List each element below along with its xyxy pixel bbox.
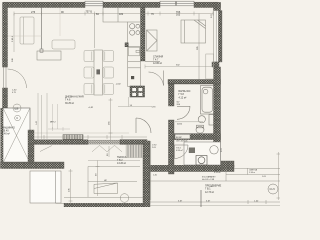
line above radiator xyxy=(34,132,129,134)
right wall outside texts xyxy=(211,13,223,152)
svg-text:С1-5: С1-5 xyxy=(270,188,276,191)
stair texts xyxy=(152,107,158,177)
corridor north wall xyxy=(150,165,234,171)
bedroom label xyxy=(153,56,163,65)
living cabinet xyxy=(37,51,61,60)
bathtub xyxy=(201,86,215,115)
left lower dim ticks row xyxy=(34,135,147,139)
faint layout lines xyxy=(8,8,61,37)
living label xyxy=(65,96,84,105)
svg-text:МЕТ.2: МЕТ.2 xyxy=(50,122,57,124)
terrace bench trapezoid xyxy=(94,183,118,194)
window W2 bedroom top (double) xyxy=(160,1,194,6)
svg-text:СВ 1.60/Ш.Б: СВ 1.60/Ш.Б xyxy=(176,141,188,143)
boiler circle xyxy=(198,116,205,123)
terrace dim vertical left xyxy=(69,169,73,203)
living table low xyxy=(52,40,75,49)
bath left wall upper xyxy=(169,84,175,106)
terrace south parapet xyxy=(64,203,147,207)
wall left lower segment xyxy=(3,88,8,108)
svg-text:757 Б: 757 Б xyxy=(86,10,93,13)
dim below chimney xyxy=(118,97,152,107)
svg-text:276: 276 xyxy=(31,11,36,14)
bath left wall lower xyxy=(169,120,175,174)
svg-text:12.73 м²: 12.73 м² xyxy=(205,191,214,194)
right wall outer hatch strip xyxy=(219,11,223,63)
svg-text:50/20: 50/20 xyxy=(177,124,183,126)
grid marker circle A xyxy=(13,104,21,112)
left balcony-door thin band xyxy=(3,67,8,90)
living sofa xyxy=(20,17,34,44)
svg-text:1.34 м: 1.34 м xyxy=(249,172,255,174)
dining table xyxy=(94,50,103,95)
svg-text:20Б: 20Б xyxy=(177,104,181,106)
slat screen strip xyxy=(126,145,143,158)
svg-text:240: 240 xyxy=(12,58,14,62)
svg-text:С: С xyxy=(16,116,18,120)
interior wall kitchen/bedroom xyxy=(141,8,146,62)
dining centerpiece xyxy=(96,69,100,74)
corridor outline lines xyxy=(150,168,280,181)
kitchen dark knob xyxy=(131,76,134,79)
bath threshold line xyxy=(175,121,203,123)
terrace window band xyxy=(88,140,147,144)
washroom door arc xyxy=(175,145,189,159)
living bottom wall solid part xyxy=(34,140,88,145)
svg-text:ВХ.ВР: ВХ.ВР xyxy=(176,137,182,139)
terrace label xyxy=(117,156,127,165)
svg-text:163: 163 xyxy=(176,13,181,16)
washroom texts xyxy=(176,141,188,153)
lobby column circle xyxy=(268,184,278,194)
svg-text:182: 182 xyxy=(119,13,124,16)
machine room outline xyxy=(3,108,30,163)
partition line xyxy=(41,8,43,50)
bedroom wardrobe xyxy=(147,30,158,51)
bedroom dim vertical xyxy=(198,14,200,80)
window W1 kitchen top xyxy=(85,1,103,6)
svg-text:Ш8: Ш8 xyxy=(15,106,19,110)
door swing triangles terrace xyxy=(92,145,122,151)
svg-text:0.98 м²: 0.98 м² xyxy=(176,149,183,152)
terrace table circle xyxy=(120,194,129,203)
svg-text:СВЕТЛА: СВЕТЛА xyxy=(249,168,258,171)
stove circles xyxy=(130,24,140,36)
machine room label xyxy=(2,127,15,136)
bedroom door arc xyxy=(145,61,160,63)
wall left upper (hatched) xyxy=(3,3,8,68)
WC pan xyxy=(196,125,204,133)
terrace dim 90 vertical xyxy=(96,161,100,197)
corridor texts row xyxy=(202,168,267,181)
svg-text:4.12 м²: 4.12 м² xyxy=(179,96,187,99)
corridor west wall xyxy=(143,141,150,207)
bedroom desk xyxy=(206,54,214,79)
bath top wall xyxy=(168,80,221,85)
kitchen sink box xyxy=(129,47,141,56)
svg-text:12.86 м²: 12.86 м² xyxy=(153,62,162,65)
svg-text:+0,82: +0,82 xyxy=(88,107,94,109)
right outer wall lower xyxy=(214,67,221,162)
washing room outline xyxy=(184,142,221,165)
svg-text:МОКРО: МОКРО xyxy=(214,169,222,171)
machine room diagonals xyxy=(3,108,30,163)
bedroom bed xyxy=(181,20,206,43)
svg-text:2.40.1: 2.40.1 xyxy=(12,35,14,42)
grid marker circle B xyxy=(15,115,21,121)
corner washer box xyxy=(209,115,215,126)
washer circle xyxy=(210,146,218,154)
svg-text:1.90/: 1.90/ xyxy=(152,145,157,147)
kitchen pier dark xyxy=(125,43,128,47)
machine room right wall xyxy=(28,130,34,163)
svg-text:НР.: НР. xyxy=(104,180,107,182)
dining chairs col2 xyxy=(103,51,114,95)
terrace dim small xyxy=(108,146,110,157)
radiator living xyxy=(63,135,83,140)
lobby label xyxy=(205,185,222,194)
dining chairs col1 xyxy=(84,51,94,95)
terrace inner rail lines xyxy=(64,161,143,198)
svg-text:+0,82: +0,82 xyxy=(116,84,122,86)
washroom cabinet xyxy=(189,148,195,154)
right dim vertical xyxy=(277,152,281,200)
bath label xyxy=(179,90,191,99)
machine room left wall xyxy=(1,108,4,163)
svg-text:Н=1.05 +2.08: Н=1.05 +2.08 xyxy=(202,179,215,181)
terrace window dark jamb xyxy=(120,140,147,145)
right wall pier block xyxy=(212,62,219,67)
top dim line xyxy=(14,12,213,16)
wall top (hatched) xyxy=(3,3,85,8)
door arc living west xyxy=(8,69,27,88)
left dim vertical lobby xyxy=(150,141,152,200)
living west door dims xyxy=(12,90,17,95)
window center dim vertical xyxy=(94,14,96,49)
right lower wall stub xyxy=(214,161,234,167)
chimney block xyxy=(130,86,145,97)
washing machine square xyxy=(196,156,207,166)
right outer wall top stub xyxy=(214,3,221,11)
left lower dim verticals xyxy=(38,93,47,139)
svg-text:0.31 м²: 0.31 м² xyxy=(214,171,221,174)
lower-left terrace ledge xyxy=(30,171,61,203)
left mid dim chains xyxy=(48,104,70,131)
wall top outer face line xyxy=(3,1,218,3)
svg-text:36.25 м²: 36.25 м² xyxy=(65,102,74,105)
bath door leaf+arc xyxy=(177,106,190,119)
bedroom dim line xyxy=(145,65,214,69)
svg-text:13.26 м²: 13.26 м² xyxy=(117,162,126,165)
right wall window band xyxy=(214,11,219,63)
bottom dim line xyxy=(150,200,280,206)
left dim vertical xyxy=(13,14,15,53)
svg-text:4.40 м²: 4.40 м² xyxy=(2,133,10,136)
corridor dim vertical xyxy=(109,98,113,140)
entry wall band with door xyxy=(169,134,221,140)
machine room bottom wall xyxy=(1,162,65,169)
kitchen counter L xyxy=(103,8,141,87)
entrance door arc xyxy=(136,118,151,133)
terrace south edge xyxy=(56,202,65,204)
